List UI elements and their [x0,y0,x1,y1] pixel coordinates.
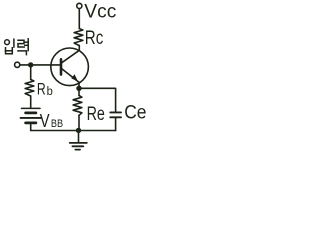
svg-text:V: V [40,110,50,131]
junction dot emitter [76,86,81,91]
wire Ce to bottom rail [115,118,117,131]
wire battery to bottom rail [30,124,32,130]
emitter arrowhead [72,75,77,81]
transistor collector diagonal [62,50,80,62]
battery VBB plate1 long [22,107,41,109]
ground bar1 [70,142,87,144]
wire ground stub [78,131,80,143]
battery VBB plate3 long [21,117,42,119]
terminal input [15,62,20,67]
wire Rb to battery [30,96,32,108]
transistor base bar [60,59,63,74]
transistor emitter diagonal [62,69,79,83]
svg-text:Vcc: Vcc [84,1,116,22]
ground bar2 [72,145,83,147]
emitter lead [78,82,80,88]
svg-text:BB: BB [51,118,63,130]
resistor Re [73,96,82,116]
battery VBB plate4 short [26,122,36,125]
junction dot ground [76,128,81,133]
wire emitter dot to Re [78,88,80,95]
resistor Rb [25,80,34,97]
wire dot to Rb [30,65,32,80]
wire emitter dot to Ce top [79,88,116,112]
resistor Rc [74,29,83,46]
svg-text:Rc: Rc [85,28,104,49]
capacitor Ce plate top [110,111,121,113]
battery VBB plate2 short [26,112,36,115]
svg-text:b: b [47,86,53,98]
label 입력 (input) [5,39,29,55]
wire base (input to base) [20,64,60,66]
capacitor Ce plate bottom [110,116,121,118]
wire Re to bottom rail [78,115,80,130]
terminal Vcc [77,3,82,8]
transistor Q1 circle [51,48,89,86]
wire Rc to collector [78,46,80,51]
svg-text:Ce: Ce [124,102,146,123]
junction dot input/Rb [28,62,33,67]
svg-text:R: R [37,79,46,98]
wire bottom rail [31,130,116,132]
ground bar3 [75,149,80,151]
wire Vcc to Rc [78,9,80,29]
svg-text:Re: Re [87,104,105,125]
